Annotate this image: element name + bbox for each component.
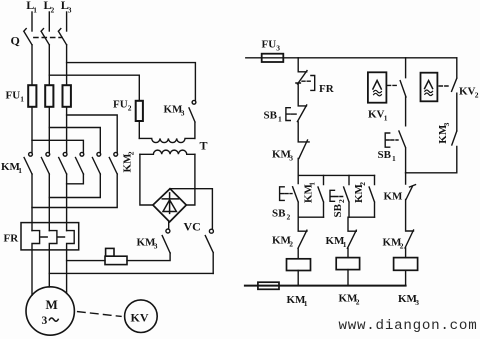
- svg-text:1: 1: [308, 182, 317, 186]
- dashed link KV2: [439, 85, 450, 87]
- svg-text:FR: FR: [319, 83, 335, 95]
- transformer T primary winding: [139, 138, 195, 142]
- svg-text:KM: KM: [384, 191, 404, 203]
- contact FR normally-closed: [296, 71, 307, 105]
- svg-text:SB: SB: [264, 110, 278, 122]
- wire branch bus node A: [298, 174, 374, 176]
- svg-text:KV: KV: [459, 86, 476, 98]
- fuse bottom bus: [258, 282, 279, 289]
- wire FU1 pole3 to KM1 contact 3: [66, 107, 68, 153]
- wire secondary right to bridge right corner: [186, 154, 195, 205]
- thermal relay FR actuator bracket: [311, 76, 315, 91]
- svg-text:2: 2: [51, 6, 55, 15]
- switch Q pole 3 blade: [58, 29, 66, 45]
- pushbutton SB1 actuator right: [385, 133, 390, 147]
- wire contact3 down to FR: [66, 174, 68, 231]
- coil KM2: [336, 258, 359, 270]
- contactor KM1 contact 3: [59, 152, 67, 174]
- switch Q pole 2 blade: [41, 29, 49, 45]
- wire contact1 down to FR: [31, 174, 33, 231]
- contactor KM3 brake contact left: [162, 229, 170, 253]
- pushbutton SB2 start contact branch1: [293, 175, 299, 217]
- rectifier VC diode: [162, 193, 178, 214]
- fuse FU1 pole 2: [45, 85, 53, 107]
- fuse FU1 pole 1: [28, 85, 36, 107]
- contact KV1: [400, 58, 406, 126]
- svg-text:3: 3: [68, 6, 72, 15]
- svg-text:SB: SB: [332, 203, 344, 217]
- wire bridge top corner to right contact: [170, 189, 212, 230]
- brake electromagnet armature bump: [106, 248, 114, 256]
- wire contact4 to phase3 junction: [67, 174, 84, 184]
- svg-text:1: 1: [343, 240, 347, 249]
- dashed link SB1 right: [391, 139, 398, 141]
- wire bridge bottom corner to left contact: [168, 222, 170, 229]
- dashed link FR: [302, 80, 310, 82]
- svg-text:3: 3: [42, 315, 48, 327]
- svg-text:3: 3: [181, 109, 185, 118]
- wire FU1 pole1 to KM1 contact 1: [31, 107, 33, 153]
- pushbutton SB1 start contact right: [399, 131, 406, 173]
- wire crossover phase1 to KM2 contact 4: [32, 140, 83, 152]
- brake electromagnet coil body: [105, 256, 127, 264]
- wire coil KM2 to bottom bus: [347, 270, 349, 286]
- svg-text:1: 1: [33, 6, 37, 15]
- contact KM2 interlock column3: [405, 230, 414, 258]
- switch Q pole 1 blade: [24, 29, 32, 45]
- contact KM1 interlock column2: [347, 217, 356, 257]
- svg-text:1: 1: [278, 115, 282, 124]
- svg-text:Q: Q: [11, 33, 20, 47]
- thermal relay FR box: [21, 223, 79, 250]
- wire secondary left to bridge left corner: [140, 154, 153, 205]
- svg-text:SB: SB: [378, 149, 392, 161]
- svg-text:2: 2: [400, 242, 404, 251]
- pushbutton SB2 actuator branch3: [330, 190, 335, 201]
- wire branch phase3 to KM3 top contact: [67, 63, 196, 101]
- dashed link SB1: [291, 113, 296, 115]
- coil KM3: [394, 258, 418, 271]
- node L2 lead: [48, 12, 50, 31]
- svg-text:www.diangon.com: www.diangon.com: [339, 318, 478, 334]
- svg-text:3: 3: [154, 242, 158, 251]
- pushbutton SB2 start contact branch3: [344, 175, 349, 217]
- wire L3 to FU1: [66, 45, 68, 85]
- speed relay KV circle: [125, 300, 158, 333]
- dashed link KV1: [387, 84, 398, 86]
- wire VC return to phase2: [49, 272, 213, 274]
- label KM2 rotated: [122, 151, 136, 172]
- svg-text:3: 3: [415, 298, 419, 307]
- svg-text:M: M: [46, 297, 58, 312]
- svg-text:1: 1: [392, 154, 396, 163]
- contact KM3 normally-closed: [298, 140, 309, 175]
- relay KV1 box: [368, 72, 387, 102]
- wire contact6 to phase1 junction: [32, 174, 117, 208]
- wire L2 to FU1: [48, 45, 50, 85]
- fuse FU1 pole 3: [63, 85, 71, 107]
- wire contact5 to phase2 junction: [49, 174, 100, 198]
- label KM2 rotated right: [353, 182, 367, 203]
- thermal relay FR dashed links: [41, 236, 65, 238]
- contact KM: [406, 173, 416, 230]
- contactor KM1 contact 2: [41, 152, 49, 174]
- contactor KM2 contact 6: [109, 152, 117, 174]
- rectifier VC bridge diamond: [153, 189, 186, 222]
- label SB2 rotated: [332, 199, 346, 218]
- svg-text:1: 1: [18, 166, 22, 175]
- contact KM3 self-hold right: [452, 131, 457, 173]
- wire top control bus: [246, 57, 457, 59]
- svg-text:2: 2: [358, 182, 367, 186]
- thermal relay FR heater 2: [49, 231, 57, 287]
- fuse FU2: [136, 101, 143, 121]
- node L3 lead: [66, 12, 68, 31]
- wire bus drop column A: [297, 58, 299, 72]
- svg-text:2: 2: [127, 151, 136, 155]
- RIGHT-CONTROL: [245, 54, 457, 290]
- thermal relay FR heater 3: [67, 231, 75, 294]
- svg-text:2: 2: [128, 104, 132, 113]
- svg-text:FU: FU: [113, 99, 128, 111]
- wire rejoin bar branches 1-2: [298, 216, 323, 218]
- svg-text:KV: KV: [368, 109, 385, 121]
- svg-text:1: 1: [20, 95, 24, 104]
- label KM1 rotated: [303, 182, 317, 203]
- wire bottom control bus: [245, 285, 406, 287]
- wire rejoin bar branches 3-4: [349, 216, 375, 218]
- contactor KM3 top contact: [189, 100, 196, 138]
- contact KM2 self-hold branch4: [369, 175, 374, 217]
- svg-text:1: 1: [304, 299, 308, 308]
- svg-text:3: 3: [442, 122, 451, 126]
- thermal relay FR heater 1: [32, 231, 40, 296]
- dashed link SB2 branch1: [285, 193, 292, 195]
- contact KM1 self-hold branch2: [318, 175, 324, 217]
- svg-text:KV: KV: [131, 311, 149, 325]
- svg-text:2: 2: [356, 298, 360, 307]
- svg-text:FU: FU: [6, 90, 21, 102]
- wire FU1 pole2 to KM1 contact 2: [48, 107, 50, 153]
- svg-text:SB: SB: [272, 208, 286, 220]
- contactor KM2 contact 4: [76, 152, 84, 174]
- node L1 lead: [31, 12, 33, 31]
- svg-text:3: 3: [289, 154, 293, 163]
- wire crossover phase2 to KM2 contact 5: [49, 128, 100, 153]
- svg-text:FR: FR: [4, 233, 20, 245]
- contactor KM2 contact 5: [92, 152, 100, 174]
- contact KV2: [452, 58, 457, 131]
- relay KV2 box: [421, 73, 438, 102]
- wire crossover phase3 to KM2 contact 6: [67, 115, 118, 152]
- wire coil KM1 to bottom bus: [297, 271, 299, 286]
- wire FU2 to primary left: [138, 121, 140, 138]
- svg-text:2: 2: [337, 199, 346, 203]
- svg-text:2: 2: [289, 240, 293, 249]
- svg-text:2: 2: [475, 91, 479, 100]
- wire L1 to FU1: [31, 45, 33, 85]
- motor M circle: [26, 287, 74, 335]
- wire coil KM3 to bottom bus: [405, 270, 407, 285]
- pushbutton SB1 actuator: [286, 108, 290, 121]
- contactor KM1 contact 1: [24, 152, 32, 174]
- coil KM1: [287, 259, 311, 271]
- transformer T secondary winding: [140, 150, 195, 154]
- svg-text:FU: FU: [262, 39, 277, 51]
- wire branch phase2 to FU2: [49, 75, 139, 101]
- pushbutton SB1 stop contact: [297, 105, 306, 141]
- svg-text:3: 3: [276, 44, 280, 53]
- relay KV1 symbol: [373, 81, 381, 90]
- wire contact2 down to FR: [48, 174, 50, 231]
- svg-text:2: 2: [287, 213, 291, 222]
- dashed link motor to KV: [78, 312, 121, 317]
- svg-text:T: T: [200, 139, 208, 153]
- label KM3 rotated right: [437, 122, 451, 143]
- wire brake coil to KM3 contact: [127, 253, 170, 261]
- contact KM2 interlock column1: [298, 217, 307, 259]
- relay KV2 symbol: [425, 81, 433, 89]
- switch Q linkage dashed line: [34, 37, 62, 39]
- fuse FU3: [262, 54, 284, 62]
- svg-text:1: 1: [384, 114, 388, 123]
- wire brake branch: [67, 260, 105, 262]
- dashed link SB2 branch3: [335, 196, 343, 198]
- wire rejoin bar KV columns: [406, 172, 457, 174]
- svg-text:VC: VC: [184, 220, 201, 234]
- pushbutton SB2 actuator branch1: [280, 187, 285, 201]
- contactor KM3 brake contact right: [205, 229, 213, 273]
